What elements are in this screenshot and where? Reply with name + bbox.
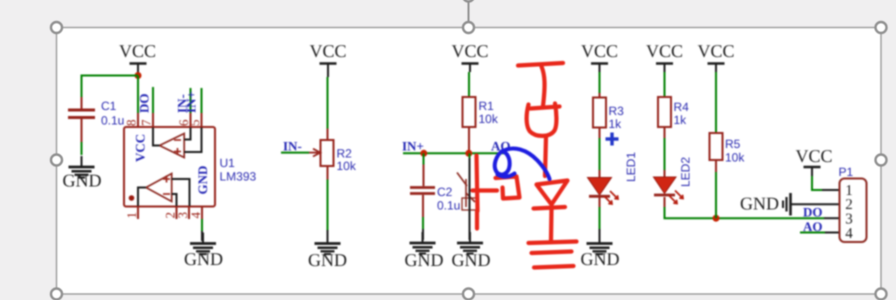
- svg-text:LED1: LED1: [624, 152, 638, 182]
- svg-text:R5: R5: [725, 137, 741, 151]
- svg-text:DO: DO: [803, 205, 823, 220]
- wire VCC to R1: [468, 72, 470, 97]
- svg-text:LM393: LM393: [220, 170, 257, 184]
- wire R2 to ground: [327, 180, 329, 241]
- svg-text:VCC: VCC: [795, 146, 832, 166]
- svg-text:GND: GND: [452, 250, 491, 270]
- connector P1: [839, 165, 867, 242]
- pin stubs bottom: [137, 207, 139, 220]
- annotation: hand-drawn red stem to transistor: [545, 137, 546, 177]
- svg-text:VCC: VCC: [133, 134, 148, 162]
- power VCC net (C1 / U1 section): [119, 41, 156, 73]
- polarity plus mark: [606, 133, 619, 146]
- svg-text:4: 4: [845, 226, 853, 242]
- wire VCC node down to U1 pin 8: [137, 76, 139, 114]
- svg-text:VCC: VCC: [119, 41, 156, 61]
- svg-text:0.1u: 0.1u: [437, 199, 460, 213]
- wire LED2 down to DO rail: [665, 197, 825, 218]
- wire VCC to R2: [327, 77, 329, 129]
- wire AO stub to P1 pin 4: [800, 232, 840, 234]
- svg-text:GND: GND: [740, 194, 779, 214]
- wire C2 to ground: [422, 217, 424, 240]
- wire R4 to LED2: [664, 138, 666, 177]
- junction dot R5/DO rail: [713, 215, 720, 222]
- comparator B (bottom, pointing left): [146, 174, 172, 202]
- wire IN- to R2 wiper: [281, 152, 309, 154]
- wire VCC to P1 pin 1: [812, 176, 840, 190]
- annotation: hand-drawn red tail below sensor: [475, 211, 479, 229]
- annotation: hand-drawn red vertical bar at sensor: [477, 156, 478, 212]
- internal wires comparator A: [153, 128, 160, 146]
- svg-text:10k: 10k: [725, 151, 745, 165]
- pin 6 wire IN-: [190, 88, 192, 113]
- ground below C1: [63, 156, 102, 191]
- ground below R2: [308, 233, 347, 271]
- power VCC net (R1 section): [451, 41, 488, 72]
- capacitor C1: [68, 97, 124, 142]
- svg-text:IN-: IN-: [283, 139, 302, 154]
- power ground symbol at P1 pin 2: [740, 193, 791, 216]
- internal wires comparator B: [138, 188, 146, 207]
- svg-text:LED2: LED2: [679, 157, 693, 187]
- svg-text:1k: 1k: [674, 113, 688, 127]
- potentiometer R2 10k: [309, 129, 357, 180]
- svg-text:DO: DO: [137, 94, 152, 114]
- resistor R4 1k: [658, 97, 689, 138]
- svg-text:VCC: VCC: [451, 41, 488, 61]
- wire ground to P1 pin 2: [791, 203, 840, 205]
- svg-text:0.1u: 0.1u: [101, 114, 124, 128]
- wire junction to C2: [423, 153, 425, 164]
- svg-text:4: 4: [188, 212, 203, 219]
- pin 1 marker dot: [129, 195, 135, 201]
- svg-text:VCC: VCC: [581, 41, 618, 61]
- ground below sensor: [452, 232, 491, 270]
- power VCC net (R3 section): [581, 41, 618, 72]
- annotation: hand-drawn red D shape: [496, 177, 520, 199]
- svg-text:R1: R1: [479, 99, 495, 113]
- wire R3 to LED1: [599, 138, 601, 178]
- power VCC net (R2 section): [309, 41, 346, 77]
- wire DO rail to P1 pin 3: [824, 217, 840, 219]
- junction dot C2 branch: [420, 150, 427, 157]
- svg-text:10k: 10k: [337, 159, 357, 173]
- wire VCC to R4: [664, 72, 666, 97]
- svg-text:GND: GND: [195, 166, 210, 195]
- power VCC net (R4 section): [646, 41, 683, 72]
- wire LED1 to ground: [599, 198, 601, 242]
- pin 5 wire IN+: [201, 88, 203, 113]
- svg-text:VCC: VCC: [646, 41, 683, 61]
- resistor R5 10k: [710, 133, 746, 172]
- svg-text:GND: GND: [405, 250, 444, 270]
- annotation: hand-drawn red transistor triangle: [537, 181, 568, 205]
- annotation: hand-drawn red stem from bar: [542, 67, 545, 107]
- wire VCC to R5: [715, 72, 717, 133]
- svg-text:C1: C1: [101, 99, 117, 113]
- svg-text:1k: 1k: [609, 117, 623, 131]
- svg-text:U1: U1: [220, 156, 236, 170]
- junction dot at VCC node: [135, 72, 142, 79]
- svg-text:R4: R4: [674, 100, 690, 114]
- resistor R1 10k: [463, 97, 499, 150]
- op-amp U1 LM393: [124, 87, 257, 219]
- svg-text:IN+: IN+: [402, 139, 424, 154]
- annotation: hand-drawn blue tail: [498, 174, 515, 177]
- ground below C2: [405, 232, 444, 270]
- pin 7 wire DO: [152, 87, 154, 113]
- annotation: hand-drawn red power bar: [518, 63, 563, 66]
- svg-text:R3: R3: [609, 104, 625, 118]
- power VCC net (R5 section): [697, 41, 734, 72]
- svg-text:IN+: IN+: [184, 91, 199, 113]
- wire R5 to DO rail: [715, 172, 717, 218]
- wire VCC node to C1 top: [82, 76, 139, 98]
- svg-text:P1: P1: [839, 165, 854, 179]
- annotation: hand-drawn red cup body: [527, 104, 557, 136]
- sensor transistor Q1 (faint original symbol): [457, 173, 477, 211]
- power VCC net (P1 section): [795, 146, 832, 176]
- svg-text:7: 7: [139, 119, 154, 126]
- annotation: hand-drawn red ground bars: [529, 242, 577, 244]
- svg-text:GND: GND: [581, 249, 620, 269]
- wire IN+ net horizontal: [403, 152, 504, 154]
- svg-text:GND: GND: [184, 249, 223, 269]
- annotation: hand-drawn red cathode bar: [534, 207, 566, 209]
- wire C1 to ground: [81, 142, 83, 155]
- wire U1 pin 4 to ground: [201, 219, 203, 241]
- svg-text:VCC: VCC: [697, 41, 734, 61]
- svg-text:1: 1: [124, 212, 139, 219]
- LED2: [654, 157, 693, 204]
- resistor R3 1k: [593, 98, 624, 139]
- svg-text:8: 8: [124, 120, 139, 127]
- annotation: hand-drawn red stem to ground: [549, 209, 554, 240]
- junction dot R1 branch: [465, 150, 472, 157]
- svg-text:5: 5: [187, 120, 202, 127]
- wire sensor to ground: [469, 153, 471, 240]
- svg-text:C2: C2: [437, 185, 453, 199]
- annotation: hand-drawn red horizontal bar at sensor: [473, 188, 498, 192]
- capacitor C2: [410, 165, 460, 218]
- LED1: [588, 152, 639, 204]
- ground below LED1: [581, 233, 620, 270]
- annotation: hand-drawn blue loop at AO: [495, 148, 550, 179]
- comparator A (top, pointing left): [160, 134, 185, 158]
- svg-text:GND: GND: [63, 171, 102, 191]
- svg-text:VCC: VCC: [309, 41, 346, 61]
- ground below U1: [184, 233, 223, 270]
- pin 8 stub: [137, 113, 139, 127]
- svg-text:AO: AO: [803, 219, 823, 234]
- wire VCC to R3: [599, 72, 601, 93]
- svg-text:10k: 10k: [479, 112, 499, 126]
- annotation: hand-drawn red cup top stroke: [531, 107, 560, 109]
- svg-text:GND: GND: [308, 250, 347, 270]
